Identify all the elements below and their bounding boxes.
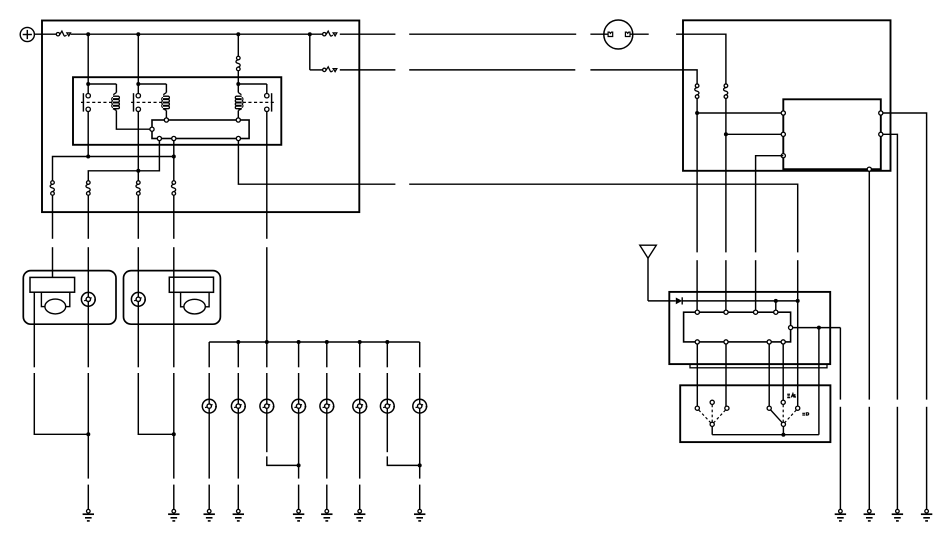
wire B horizontal <box>88 141 159 181</box>
relay R3 junction node <box>236 82 240 86</box>
ground G6 <box>321 509 332 520</box>
relay R1 <box>81 84 119 112</box>
lighting switch box <box>680 385 830 442</box>
node wire A junction 2 <box>172 155 176 159</box>
wire strip pin2 down to fuse F8 <box>173 141 175 181</box>
ground G10 <box>864 509 875 520</box>
headlight assembly right <box>124 271 221 325</box>
wire fuse F9 branch down <box>696 113 698 252</box>
relay R1 junction node <box>86 82 90 86</box>
wire second rail segment 3 <box>409 69 575 71</box>
wire to control unit pin 2 <box>726 133 783 135</box>
node bulb rail junction 7 <box>385 340 389 344</box>
pin U1 left 1 <box>781 111 785 115</box>
wire motor M1 return segment 2 <box>34 373 88 434</box>
pin strip top 1 <box>164 118 168 122</box>
wire bulb 4 to ground <box>298 413 300 479</box>
wire relay R1 coil to strip pin <box>116 111 149 130</box>
pin RU right <box>789 326 793 330</box>
wire drop to second rail <box>309 34 311 70</box>
wire fuse F10 to control unit pin 2 <box>725 99 727 135</box>
antenna symbol <box>640 245 657 301</box>
node below fuse F10 <box>724 132 728 136</box>
wire drop to relay R1 <box>87 34 89 84</box>
pin strip bottom 1 <box>157 136 161 140</box>
node bulb rail junction 4 <box>297 340 301 344</box>
wire main rail segment 2 <box>340 33 396 35</box>
ground G11 <box>892 509 903 520</box>
wire RU pin to switch 4 <box>782 344 784 400</box>
pin RU top 1 <box>695 310 699 314</box>
headlight bulb housing left <box>41 292 69 314</box>
pin U1 right 2 <box>879 132 883 136</box>
wire RU right pin out <box>793 327 841 329</box>
wire lighting feed segment 2 <box>266 247 268 342</box>
pin RU bottom 3 <box>767 340 771 344</box>
relay R2 junction node <box>136 82 140 86</box>
wire bulb 2 to ground <box>237 413 239 479</box>
wire left ground lead 2 <box>173 485 175 510</box>
wire relay R2 coil to strip pin <box>165 111 167 119</box>
bulb rail <box>209 341 420 343</box>
wire long run right segment 2 <box>409 184 798 252</box>
wire main rail segment 5 <box>630 33 649 35</box>
bulb DL6 <box>353 399 368 413</box>
node diode wire junction 2 <box>796 299 800 303</box>
wire switch SW1 common down <box>711 426 713 434</box>
bulb DL1 <box>202 399 217 413</box>
node motor/lamp right join <box>172 432 176 436</box>
wire motor M2 return segment 2 <box>173 373 175 479</box>
pin U1 left 2 <box>781 132 785 136</box>
pin RU top 2 <box>724 310 728 314</box>
ground G3 <box>204 509 215 520</box>
fuse F4 <box>323 67 337 72</box>
retract indicator lamp L2 <box>131 292 146 306</box>
wire bulb 1 to ground <box>208 413 210 479</box>
wire RU pin to switch 3 <box>768 344 770 406</box>
wire bulb drop 5b <box>326 373 328 399</box>
node rail junction D <box>308 32 312 36</box>
wire U1 right pin 1 to ground <box>883 113 927 400</box>
pin RU bottom 1 <box>695 340 699 344</box>
fuse F7 <box>136 181 140 196</box>
wire ground G9 lead <box>839 407 841 510</box>
relay box <box>73 77 281 145</box>
node diode wire junction 1 <box>774 299 778 303</box>
pin U1 right 1 <box>879 111 883 115</box>
wire fuse F3 to relay R3 <box>237 71 239 84</box>
pin strip left <box>150 127 154 131</box>
retract control unit box <box>669 292 830 364</box>
wire long run into switch <box>797 303 799 406</box>
wire main rail segment 3 <box>409 33 576 35</box>
battery positive terminal <box>20 27 34 41</box>
switch SW2 <box>767 400 800 426</box>
ground G1 <box>83 509 94 520</box>
pin strip bottom 3 <box>236 136 240 140</box>
wire RU pin to switch 1 <box>696 344 698 406</box>
label 3P <box>802 413 808 416</box>
wire bulb drop 7b <box>386 373 388 399</box>
headlight bulb housing right <box>181 292 210 314</box>
wire bulb drop 2b <box>237 373 239 399</box>
node below fuse F9 <box>695 111 699 115</box>
node motor/lamp left join <box>86 432 90 436</box>
node rail junction B <box>136 32 140 36</box>
fuse box (outer box) <box>42 21 359 213</box>
wire drop to relay R2 <box>137 34 139 84</box>
wire drop to fuse F3 <box>237 34 239 56</box>
wire bulb 3 jog to bulb 4 <box>267 456 299 465</box>
bulb DL3 <box>260 399 275 413</box>
wire main rail segment 4 <box>590 33 607 35</box>
pin RU bottom 4 <box>781 340 785 344</box>
wire lamp L1 return <box>87 306 89 367</box>
control unit U1 <box>783 99 881 169</box>
wire U1 right pin 2 to ground <box>883 134 898 399</box>
wire to ground G9 <box>839 328 841 400</box>
ground G4 <box>233 509 244 520</box>
ground G8 <box>414 509 425 520</box>
wire RU pin to switch 2 <box>725 344 727 406</box>
connector bar <box>690 364 827 367</box>
wire bulb drop 6b <box>359 373 361 399</box>
fuse F10 <box>724 84 728 98</box>
wire second rail segment 2 <box>340 69 396 71</box>
wire bulb 3 down <box>266 413 268 452</box>
wire fuse F10 branch down <box>725 134 727 252</box>
node bulb rail junction 3 <box>265 340 269 344</box>
wire bulb 4 ground lead <box>298 485 300 510</box>
ground G12 <box>921 509 932 520</box>
wire bulb drop 3 <box>266 373 268 399</box>
wire antenna to diode <box>648 300 676 302</box>
wire relay R3 coil to strip pin <box>237 111 239 119</box>
wire bulb 5 to ground <box>326 413 328 479</box>
bulb DL2 <box>231 399 246 413</box>
retract motor M2 <box>169 277 213 292</box>
wire U1 bottom pin ground lead <box>868 407 870 510</box>
wire lighting feed segment 3 <box>266 342 268 367</box>
wire bulb 5 ground lead <box>326 485 328 510</box>
wire diode output <box>682 300 798 302</box>
headlight assembly left <box>23 271 116 325</box>
relay control box right <box>683 20 891 171</box>
fuse F8 <box>171 181 175 196</box>
pin strip bottom 2 <box>172 136 176 140</box>
wire bulb 6 to ground <box>359 413 361 479</box>
wire switch common feed down <box>818 328 820 435</box>
retract unit inner box <box>684 312 791 342</box>
fuse F2 <box>323 31 337 36</box>
node bulb rail junction 2 <box>236 340 240 344</box>
wire bulb drop 8b <box>419 373 421 399</box>
wire fuse F6 to lamp L1 <box>87 195 89 239</box>
fuse F1 <box>56 31 70 36</box>
ground G7 <box>354 509 365 520</box>
wire relay R3 contact down (lighting feed) <box>266 112 268 239</box>
switch SW1 <box>695 400 729 426</box>
relay R3 <box>235 84 273 112</box>
label 34t <box>787 394 796 398</box>
wire main rail segment 1 <box>71 33 323 35</box>
wire bulb drop 2 <box>237 342 239 367</box>
wire bulb drop 6 <box>359 342 361 367</box>
node rail junction C <box>236 32 240 36</box>
wire second rail segment 1 <box>310 69 323 71</box>
wire bulb 7 down <box>386 413 388 452</box>
bulb DL4 <box>292 399 307 413</box>
relay R2 <box>131 84 169 112</box>
wire battery to fuse F1 <box>34 33 56 35</box>
wire fuse F5 to motor M1 <box>52 195 54 239</box>
pin RU bottom 2 <box>724 340 728 344</box>
wire lamp L1 return segment 2 <box>87 373 89 479</box>
wire second rail segment 4 <box>590 70 697 84</box>
ground G2 <box>168 509 179 520</box>
pin strip top 2 <box>236 118 240 122</box>
wire to retract unit pin 4 <box>775 301 777 312</box>
wire strip pin3 long run right <box>238 141 395 185</box>
ground G9 <box>835 509 846 520</box>
node switch feed junction <box>817 326 821 330</box>
wire bulb 2 ground lead <box>237 485 239 510</box>
wire bulb drop 1 <box>208 342 210 367</box>
ground G5 <box>293 509 304 520</box>
wire bulb 8 to ground <box>419 413 421 479</box>
wire bulb drop 7 <box>386 342 388 367</box>
pin RU top 4 <box>774 310 778 314</box>
wire bulb 1 ground lead <box>208 485 210 510</box>
node rail junction A <box>86 32 90 36</box>
wire bulb 7 jog to bulb 8 <box>387 456 419 465</box>
diode D1 <box>676 297 682 304</box>
wire bulb 6 ground lead <box>359 485 361 510</box>
bulb DL8 <box>413 399 428 413</box>
wire bulb drop 4 <box>298 342 300 367</box>
connector C1 (2P round) <box>604 20 633 49</box>
pin RU top 3 <box>754 310 758 314</box>
node bulb 7/8 join <box>418 463 422 467</box>
connector strip <box>152 120 249 139</box>
node bulb rail junction 5 <box>325 340 329 344</box>
retract motor M1 <box>30 277 75 292</box>
fuse F5 <box>50 181 54 196</box>
wire bulb drop 5 <box>326 342 328 367</box>
wire left ground lead 1 <box>87 485 89 510</box>
wire A horizontal <box>53 157 174 181</box>
retract indicator lamp L1 <box>81 292 96 306</box>
node bulb 3/4 join <box>297 463 301 467</box>
node wire A junction 1 <box>86 155 90 159</box>
wire motor M1 return <box>33 292 35 367</box>
node switch common join <box>781 433 785 437</box>
node wire B junction <box>136 169 140 173</box>
bulb DL7 <box>380 399 395 413</box>
wire U1 right pin 2 ground lead <box>896 407 898 510</box>
node bulb rail junction 6 <box>358 340 362 344</box>
wire bulb drop 8 <box>419 342 421 367</box>
wire fuse F7 to lamp L2 <box>137 195 139 239</box>
wire relay R1 contact down <box>87 112 89 157</box>
wire fuse F8 through motor M2 <box>173 195 175 239</box>
fuse F3 <box>236 56 240 71</box>
wire switch common bus <box>712 434 819 436</box>
wire switch SW2 common down <box>782 426 784 434</box>
wire bulb drop 4b <box>298 373 300 399</box>
wire lamp L2 return <box>137 306 139 367</box>
wire relay R2 contact down <box>137 112 139 181</box>
wire bulb 8 ground lead <box>419 485 421 510</box>
pin U1 left 3 <box>781 154 785 158</box>
wire main rail segment 6 into relay box <box>676 34 726 84</box>
wire lamp L2 return segment 2 <box>138 373 174 434</box>
wire fuse F9 to control unit pin 1 <box>696 99 698 114</box>
wire U1 right pin 1 ground lead <box>926 407 928 510</box>
bulb DL5 <box>320 399 335 413</box>
wire bulb drop 1b <box>208 373 210 399</box>
fuse F9 <box>695 84 699 98</box>
wire U1 left pin 3 down <box>756 156 784 253</box>
pin U1 bottom <box>867 167 871 171</box>
fuse F6 <box>86 181 90 196</box>
wire to control unit pin 1 <box>697 112 783 114</box>
wire U1 bottom pin to ground <box>868 171 870 399</box>
